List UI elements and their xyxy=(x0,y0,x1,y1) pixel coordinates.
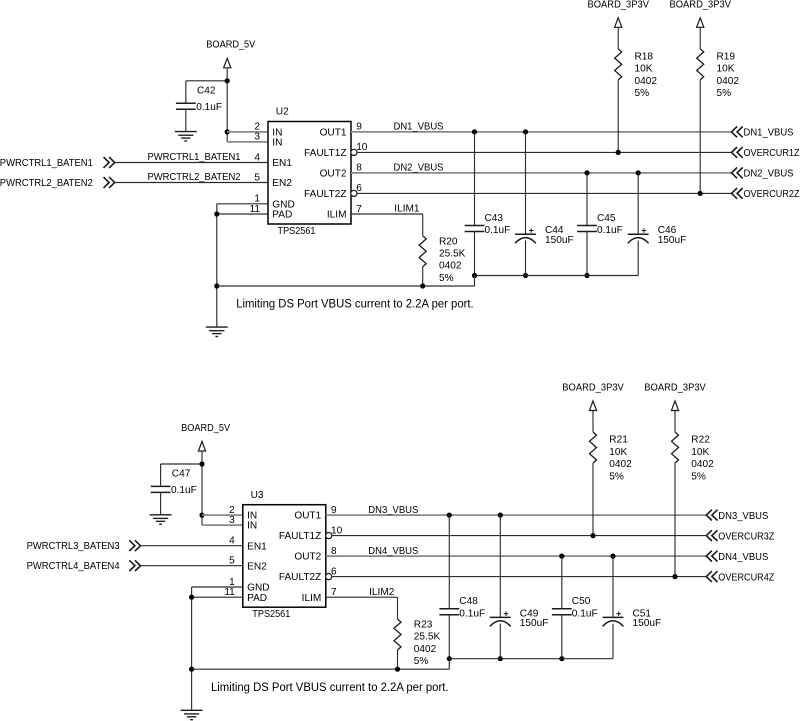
ground (main) xyxy=(181,709,203,711)
svg-text:OUT1: OUT1 xyxy=(320,128,347,139)
junction ground rail xyxy=(214,283,219,288)
wire EN1 xyxy=(141,545,243,547)
junction R23 bottom xyxy=(395,667,400,672)
port connector PWRCTRL3_BATEN3 xyxy=(129,540,140,551)
junction bypass branch xyxy=(225,78,230,83)
wire to pin 2 IN xyxy=(227,131,268,133)
svg-text:0.1uF: 0.1uF xyxy=(485,225,511,236)
capacitor C51 150uF polarized xyxy=(612,556,614,617)
svg-text:OVERCUR2Z: OVERCUR2Z xyxy=(744,189,800,200)
capacitor C45 0.1uF xyxy=(586,173,588,226)
svg-text:PWRCTRL1_BATEN1: PWRCTRL1_BATEN1 xyxy=(148,152,241,163)
IC U3 TPS2561 xyxy=(243,505,326,608)
svg-text:OVERCUR1Z: OVERCUR1Z xyxy=(744,148,800,159)
ground (bypass cap) xyxy=(175,131,197,133)
svg-text:C43: C43 xyxy=(485,213,504,224)
wire ILIM ILIM2 xyxy=(326,596,398,598)
svg-text:R19: R19 xyxy=(717,52,736,63)
resistor R23 25.5K xyxy=(397,597,399,619)
wire FAULT2Z OVERCUR4Z xyxy=(332,576,707,578)
svg-text:U2: U2 xyxy=(276,107,289,118)
svg-text:4: 4 xyxy=(254,152,260,163)
svg-text:0.1uF: 0.1uF xyxy=(572,608,598,619)
svg-text:R18: R18 xyxy=(635,52,654,63)
port connector OVERCUR3Z xyxy=(706,530,717,541)
port connector OVERCUR2Z xyxy=(732,188,743,199)
svg-text:PWRCTRL3_BATEN3: PWRCTRL3_BATEN3 xyxy=(27,541,120,552)
junction C49 bottom xyxy=(498,656,503,661)
power symbol BOARD_3P3V (R18) xyxy=(615,18,622,28)
wire ILIM ILIM1 xyxy=(351,213,423,215)
wire GND vertical xyxy=(216,204,218,327)
svg-text:ILIM2: ILIM2 xyxy=(369,587,395,598)
wire pin 1 GND xyxy=(192,586,243,588)
svg-text:5: 5 xyxy=(254,172,260,183)
pin 10 FAULT1Z bubble xyxy=(326,533,332,539)
wire FAULT1Z OVERCUR1Z xyxy=(357,151,732,153)
svg-text:U3: U3 xyxy=(251,490,264,501)
svg-text:OVERCUR4Z: OVERCUR4Z xyxy=(718,572,774,583)
svg-text:5%: 5% xyxy=(717,88,732,99)
svg-text:DN3_VBUS: DN3_VBUS xyxy=(368,505,418,516)
port connector OVERCUR4Z xyxy=(706,571,717,582)
wire GND vertical xyxy=(191,587,193,710)
junction bypass branch xyxy=(199,461,204,466)
junction C46 top xyxy=(636,170,641,175)
svg-text:5%: 5% xyxy=(439,273,454,284)
svg-text:0.1uF: 0.1uF xyxy=(171,485,197,496)
capacitor C46 150uF polarized xyxy=(637,173,639,234)
junction PAD xyxy=(214,211,219,216)
wire ground rail xyxy=(217,285,475,287)
svg-text:150uF: 150uF xyxy=(545,235,574,246)
svg-text:150uF: 150uF xyxy=(658,235,687,246)
wire to pin 3 IN xyxy=(227,141,268,143)
svg-text:OVERCUR3Z: OVERCUR3Z xyxy=(718,531,774,542)
svg-text:EN2: EN2 xyxy=(272,178,292,189)
wire FAULT2Z OVERCUR2Z xyxy=(357,192,732,194)
svg-text:FAULT2Z: FAULT2Z xyxy=(279,572,321,583)
wire EN2 xyxy=(141,565,243,567)
svg-text:0402: 0402 xyxy=(691,459,714,470)
capacitor C48 0.1uF xyxy=(448,515,450,609)
svg-text:0.1uF: 0.1uF xyxy=(597,225,623,236)
wire branch to bypass cap xyxy=(186,80,227,82)
svg-text:PWRCTRL2_BATEN2: PWRCTRL2_BATEN2 xyxy=(148,172,241,183)
svg-text:10K: 10K xyxy=(635,64,653,75)
svg-text:5: 5 xyxy=(229,556,235,567)
svg-text:0.1uF: 0.1uF xyxy=(196,102,222,113)
svg-text:R23: R23 xyxy=(414,620,433,631)
wire OUT2 DN4_VBUS xyxy=(326,555,707,557)
svg-text:FAULT1Z: FAULT1Z xyxy=(304,148,346,159)
port connector PWRCTRL4_BATEN4 xyxy=(129,560,140,571)
wire drop to ground rail xyxy=(448,659,450,670)
resistor R20 25.5K xyxy=(422,214,424,236)
junction C50 top xyxy=(559,554,564,559)
resistor R21 10K pull-up xyxy=(592,411,594,433)
svg-text:PAD: PAD xyxy=(272,210,292,221)
junction R19 bottom xyxy=(698,191,703,196)
port connector DN1_VBUS xyxy=(732,127,743,138)
power symbol BOARD_3P3V (R19) xyxy=(697,18,704,28)
svg-text:150uF: 150uF xyxy=(520,618,549,629)
svg-text:FAULT2Z: FAULT2Z xyxy=(304,189,346,200)
power symbol BOARD_5V (U3 section) xyxy=(198,442,205,452)
ground (main) xyxy=(206,326,228,328)
svg-text:3: 3 xyxy=(254,132,260,143)
junction IN pin 2 xyxy=(199,513,204,518)
svg-text:11: 11 xyxy=(250,204,261,215)
svg-text:ILIM1: ILIM1 xyxy=(394,204,420,215)
svg-text:7: 7 xyxy=(356,204,362,215)
pin 10 FAULT1Z bubble xyxy=(351,149,357,155)
port connector PWRCTRL1_BATEN1 xyxy=(104,157,115,168)
svg-text:DN1_VBUS: DN1_VBUS xyxy=(744,128,794,139)
resistor R22 10K pull-up xyxy=(674,411,676,433)
junction C45 top xyxy=(584,170,589,175)
junction ground rail xyxy=(189,667,194,672)
svg-text:ILIM: ILIM xyxy=(302,593,322,604)
svg-text:3: 3 xyxy=(229,515,235,526)
junction IN pin 2 xyxy=(225,129,230,134)
svg-text:Limiting DS Port VBUS current: Limiting DS Port VBUS current to 2.2A pe… xyxy=(211,680,449,694)
svg-text:10: 10 xyxy=(356,142,368,153)
svg-text:FAULT1Z: FAULT1Z xyxy=(279,531,321,542)
svg-text:C48: C48 xyxy=(459,596,478,607)
svg-text:DN2_VBUS: DN2_VBUS xyxy=(394,163,444,174)
svg-text:7: 7 xyxy=(331,587,337,598)
junction C49 top xyxy=(498,513,503,518)
capacitor C42 0.1uF bypass xyxy=(185,81,187,103)
svg-text:25.5K: 25.5K xyxy=(439,249,466,260)
wire capacitor ground rail xyxy=(475,275,639,277)
power symbol BOARD_3P3V (R22) xyxy=(671,401,678,411)
svg-text:OUT2: OUT2 xyxy=(294,552,321,563)
ground (bypass cap) xyxy=(150,514,172,516)
junction C50 bottom xyxy=(559,656,564,661)
svg-text:0402: 0402 xyxy=(717,76,740,87)
junction C44 top xyxy=(523,129,528,134)
svg-text:DN4_VBUS: DN4_VBUS xyxy=(368,546,418,557)
power symbol BOARD_3P3V (R21) xyxy=(589,401,596,411)
svg-text:PWRCTRL1_BATEN1: PWRCTRL1_BATEN1 xyxy=(0,158,93,169)
svg-text:ILIM: ILIM xyxy=(327,210,347,221)
junction C44 bottom xyxy=(523,273,528,278)
wire OUT1 DN3_VBUS xyxy=(326,514,707,516)
wire to pin 3 IN xyxy=(202,524,243,526)
svg-text:10K: 10K xyxy=(609,447,627,458)
svg-text:5%: 5% xyxy=(609,471,624,482)
power symbol BOARD_5V (U2 section) xyxy=(224,58,231,68)
wire OUT1 DN1_VBUS xyxy=(351,131,732,133)
svg-text:0402: 0402 xyxy=(609,459,632,470)
resistor R18 10K pull-up xyxy=(617,27,619,49)
svg-text:5%: 5% xyxy=(414,656,429,667)
junction PAD xyxy=(189,595,194,600)
wire pin 11 PAD xyxy=(217,213,268,215)
svg-text:IN: IN xyxy=(247,521,257,532)
wire to pin 2 IN xyxy=(202,514,243,516)
port connector DN2_VBUS xyxy=(732,168,743,179)
svg-text:OUT1: OUT1 xyxy=(294,511,321,522)
svg-text:TPS2561: TPS2561 xyxy=(278,226,316,237)
wire OUT2 DN2_VBUS xyxy=(351,172,732,174)
svg-text:DN2_VBUS: DN2_VBUS xyxy=(744,169,794,180)
svg-text:4: 4 xyxy=(229,536,235,547)
junction R18 bottom xyxy=(616,150,621,155)
svg-text:C42: C42 xyxy=(197,86,216,97)
pin 6 FAULT2Z bubble xyxy=(351,190,357,196)
svg-text:OUT2: OUT2 xyxy=(320,169,347,180)
svg-text:10K: 10K xyxy=(717,64,735,75)
IC U2 TPS2561 xyxy=(268,122,351,225)
junction C51 top xyxy=(610,554,615,559)
capacitor C49 150uF polarized xyxy=(499,515,501,617)
svg-text:R22: R22 xyxy=(691,435,710,446)
wire branch to bypass cap xyxy=(161,463,202,465)
svg-text:0.1uF: 0.1uF xyxy=(459,608,485,619)
wire pin 1 GND xyxy=(217,203,268,205)
junction C43 bottom xyxy=(472,273,477,278)
svg-text:BOARD_3P3V: BOARD_3P3V xyxy=(562,383,624,394)
svg-text:PWRCTRL2_BATEN2: PWRCTRL2_BATEN2 xyxy=(0,178,93,189)
wire EN1 xyxy=(115,162,268,164)
wire FAULT1Z OVERCUR3Z xyxy=(332,535,707,537)
port connector DN4_VBUS xyxy=(706,551,717,562)
capacitor C43 0.1uF xyxy=(474,132,476,226)
svg-text:25.5K: 25.5K xyxy=(414,632,441,643)
svg-text:5%: 5% xyxy=(691,471,706,482)
port connector PWRCTRL2_BATEN2 xyxy=(104,177,115,188)
wire EN2 xyxy=(115,182,268,184)
wire BOARD_5V vertical to IN pins xyxy=(201,451,203,525)
svg-text:150uF: 150uF xyxy=(633,618,662,629)
svg-text:C47: C47 xyxy=(172,469,191,480)
junction R22 bottom xyxy=(672,574,677,579)
svg-text:DN4_VBUS: DN4_VBUS xyxy=(718,552,768,563)
svg-text:C50: C50 xyxy=(572,596,591,607)
svg-text:DN3_VBUS: DN3_VBUS xyxy=(718,511,768,522)
wire drop to ground rail xyxy=(474,276,476,287)
svg-text:EN1: EN1 xyxy=(272,158,292,169)
junction R21 bottom xyxy=(590,533,595,538)
capacitor C44 150uF polarized xyxy=(525,132,527,234)
svg-text:Limiting DS Port VBUS current: Limiting DS Port VBUS current to 2.2A pe… xyxy=(236,297,474,311)
svg-text:BOARD_5V: BOARD_5V xyxy=(206,40,255,51)
junction C45 bottom xyxy=(584,273,589,278)
svg-text:DN1_VBUS: DN1_VBUS xyxy=(394,122,444,133)
svg-text:IN: IN xyxy=(272,138,282,149)
svg-text:PAD: PAD xyxy=(247,593,267,604)
svg-text:EN1: EN1 xyxy=(247,541,267,552)
svg-text:C45: C45 xyxy=(597,213,616,224)
svg-text:11: 11 xyxy=(224,587,235,598)
wire capacitor ground rail xyxy=(449,658,613,660)
svg-text:0402: 0402 xyxy=(439,261,462,272)
svg-text:10: 10 xyxy=(331,525,343,536)
wire pin 11 PAD xyxy=(192,596,243,598)
junction R20 bottom xyxy=(420,283,425,288)
svg-text:R21: R21 xyxy=(609,435,628,446)
svg-text:BOARD_5V: BOARD_5V xyxy=(181,423,230,434)
svg-text:TPS2561: TPS2561 xyxy=(252,609,290,620)
junction C48 bottom xyxy=(447,656,452,661)
wire ground rail xyxy=(192,668,450,670)
junction C48 top xyxy=(447,513,452,518)
pin 6 FAULT2Z bubble xyxy=(326,574,332,580)
wire BOARD_5V vertical to IN pins xyxy=(226,68,228,142)
capacitor C50 0.1uF xyxy=(561,556,563,609)
port connector DN3_VBUS xyxy=(706,510,717,521)
svg-text:5%: 5% xyxy=(635,88,650,99)
capacitor C47 0.1uF bypass xyxy=(160,464,162,486)
port connector OVERCUR1Z xyxy=(732,147,743,158)
svg-text:EN2: EN2 xyxy=(247,561,267,572)
svg-text:10K: 10K xyxy=(691,447,709,458)
svg-text:PWRCTRL4_BATEN4: PWRCTRL4_BATEN4 xyxy=(27,561,120,572)
svg-text:R20: R20 xyxy=(439,236,458,247)
svg-text:BOARD_3P3V: BOARD_3P3V xyxy=(670,0,732,10)
svg-text:BOARD_3P3V: BOARD_3P3V xyxy=(644,383,706,394)
svg-text:BOARD_3P3V: BOARD_3P3V xyxy=(588,0,650,10)
svg-text:0402: 0402 xyxy=(414,644,437,655)
svg-text:0402: 0402 xyxy=(635,76,658,87)
junction C43 top xyxy=(472,129,477,134)
resistor R19 10K pull-up xyxy=(699,27,701,49)
